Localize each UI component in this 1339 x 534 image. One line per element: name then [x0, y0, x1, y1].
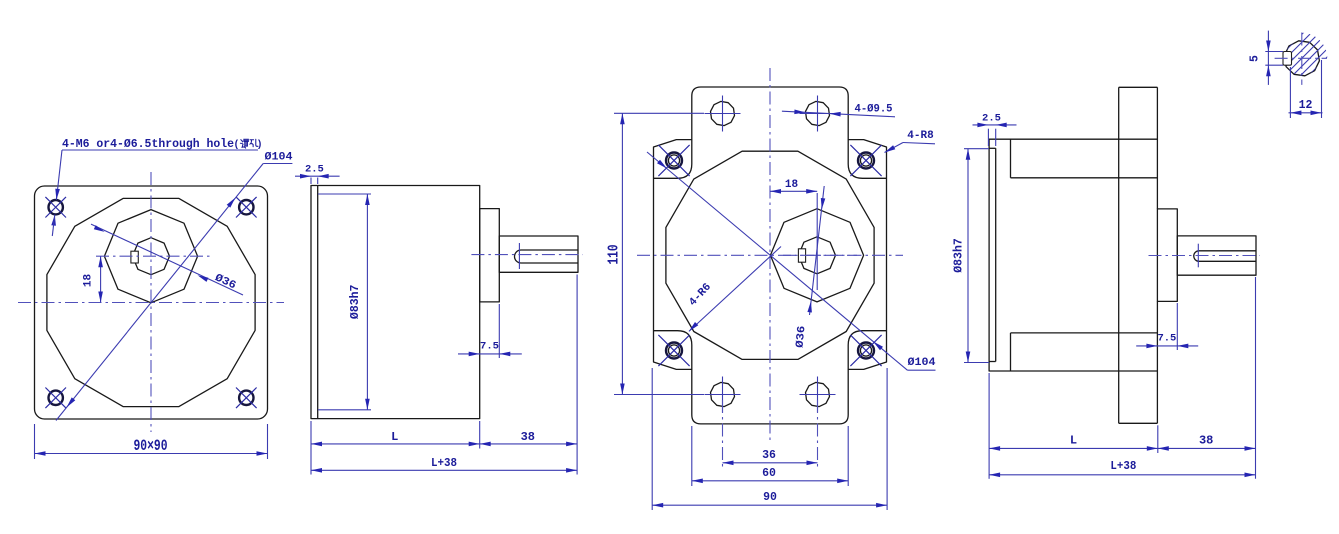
svg-text:4-R6: 4-R6 [687, 281, 714, 308]
view 3: flange front view with mounting tabs, 90x110 [654, 87, 887, 424]
svg-text:7.5: 7.5 [480, 341, 499, 353]
svg-text:38: 38 [521, 430, 535, 444]
view 3 label 4-R8 with leader [885, 130, 936, 153]
view 1 label 4-M6 or 4-Ø6.5 through hole with leader [51, 137, 262, 236]
view 3 dimension 110 [607, 113, 705, 394]
view 1 housing circle Ø83 (dodecagon) [47, 198, 255, 406]
view 3 dimension Ø36 [795, 186, 826, 348]
view 4 dimension L [989, 373, 1158, 479]
view 1 vertical centerline [150, 172, 152, 432]
view 1 dimension Ø36 [91, 224, 243, 295]
view 1 horizontal centerline (shaft axis) [96, 255, 212, 257]
svg-text:12: 12 [1299, 99, 1313, 112]
view 3 label 4-R6 with leader [687, 247, 781, 332]
view 4 shaft centerline [1149, 255, 1260, 257]
view 3 horizontal centerline [637, 254, 903, 256]
view 3 tab hole Ø9.5 #2 [800, 96, 836, 132]
svg-text:90×90: 90×90 [134, 437, 168, 455]
view 1: square mounting flange 90x90, front view [35, 186, 268, 419]
svg-text:5: 5 [1249, 55, 1262, 62]
view 1 shaft bore with keyway [131, 238, 170, 275]
svg-text:2.5: 2.5 [305, 164, 324, 176]
view 4 tab slab edges [1011, 139, 1158, 371]
view 3 dimension Ø104 with leader [647, 152, 936, 370]
view 4 output shaft [1177, 236, 1256, 275]
svg-text:): ) [256, 139, 262, 151]
view 1 mounting hole M6/Ø6.5 #3 [45, 388, 66, 409]
view 4: side view of gearmotor, tab flange version [989, 139, 1157, 371]
svg-text:110: 110 [607, 245, 623, 265]
svg-text:4-Ø9.5: 4-Ø9.5 [855, 104, 893, 116]
view 4 dimension Ø83h7 [953, 149, 990, 363]
view 2 dimension 7.5 [458, 304, 522, 358]
view 2 output shaft [499, 236, 578, 272]
view 2 output boss [480, 209, 500, 302]
svg-text:Ø83h7: Ø83h7 [349, 284, 362, 319]
view 3 dimension 36 [723, 400, 818, 467]
view 1 dimension 18 (shaft offset) [83, 256, 103, 302]
view 4 dimension 38 [1158, 277, 1256, 479]
svg-text:36: 36 [762, 449, 776, 462]
view 1 mounting hole M6/Ø6.5 #4 [236, 388, 257, 409]
svg-text:90: 90 [763, 491, 777, 504]
view 3 shaft bore with keyway [798, 237, 835, 274]
view 2 dimension L+38 [311, 456, 577, 473]
svg-text:38: 38 [1199, 434, 1213, 448]
detail centerlines [1275, 33, 1327, 85]
view 3 tab hole Ø9.5 #3 [705, 377, 741, 413]
svg-text:Ø104: Ø104 [908, 357, 936, 369]
view 1 dimension Ø104 bolt-circle diagonal [56, 152, 293, 421]
svg-text:18: 18 [83, 274, 95, 288]
view 3 tab hole Ø9.5 #4 [800, 377, 836, 413]
view 1 mounting hole M6/Ø6.5 #1 [45, 197, 66, 218]
view 4 shaft keyway [1194, 244, 1256, 268]
svg-text:7.5: 7.5 [1157, 333, 1176, 345]
svg-text:Ø83h7: Ø83h7 [953, 238, 966, 273]
view 3 corner hole M6 #1 [658, 145, 689, 176]
view 3 corner hole M6 #4 [850, 335, 881, 366]
view 2 dimension Ø83h7 [318, 194, 371, 410]
view 2 dimension 38 [480, 275, 577, 475]
svg-text:Ø36: Ø36 [213, 272, 238, 292]
svg-text:4-M6 or4-Ø6.5through hole: 4-M6 or4-Ø6.5through hole [62, 137, 234, 151]
svg-text:L: L [1070, 434, 1077, 448]
view 2: side view of gearmotor, square flange version [311, 186, 480, 419]
view 4 dimension 2.5 [973, 113, 1017, 147]
svg-text:L+38: L+38 [431, 456, 457, 470]
view 2 dimension L [311, 421, 480, 475]
view 3 dimension 60 [692, 426, 848, 486]
view 3 corner hole M6 #2 [850, 145, 881, 176]
view 3 boss circle Ø36 (octagon, offset 18) [770, 209, 863, 302]
view 2 dimension 2.5 [295, 164, 340, 185]
svg-text:2.5: 2.5 [982, 113, 1001, 125]
view 3 housing circle Ø83 (dodecagon) [666, 151, 874, 359]
view 2 front plate 2.5 inner edge [317, 186, 319, 419]
svg-text:60: 60 [762, 467, 776, 480]
svg-text:L+38: L+38 [1110, 459, 1136, 473]
view 3 tab hole Ø9.5 #1 [705, 96, 741, 132]
svg-text:Ø104: Ø104 [265, 152, 293, 164]
view 4 dimension L+38 [989, 459, 1255, 477]
view 3 shaft axis short centerline [783, 254, 857, 256]
view 1 boss circle Ø36 (octagon) [104, 210, 197, 303]
view 4 flange plate with tabs [1119, 87, 1158, 423]
view 3 corner ear edges (R8 pockets) [654, 140, 887, 370]
view 3 corner hole M6 #3 [658, 335, 689, 366]
view 3 vertical centerline [769, 68, 771, 440]
svg-text:4-R8: 4-R8 [907, 130, 934, 142]
view 3 dimension 90 [652, 368, 887, 510]
svg-text:L: L [391, 430, 398, 444]
view 4 dimension 7.5 [1136, 303, 1198, 350]
detail dimension 5 (key width) [1249, 31, 1284, 85]
view 4 front plate 2.5 [989, 148, 996, 361]
detail: shaft cross-section Ø14 with key [1250, 6, 1339, 110]
view 4 output boss [1157, 209, 1177, 302]
svg-text:(: ( [233, 139, 239, 151]
view 3 label 4-Ø9.5 with leader [782, 104, 895, 117]
view 2 shaft keyway [515, 243, 579, 269]
detail dimension 12 [1289, 60, 1323, 118]
svg-text:18: 18 [785, 179, 799, 191]
view 1 horizontal centerline (main) [18, 302, 284, 304]
view 3 dimension 18 [770, 179, 817, 290]
view 2 shaft centerline [471, 254, 582, 256]
svg-text:Ø36: Ø36 [795, 325, 809, 348]
view 1 dimension 90x90 [35, 424, 268, 459]
view 1 mounting hole M6/Ø6.5 #2 [236, 197, 257, 218]
